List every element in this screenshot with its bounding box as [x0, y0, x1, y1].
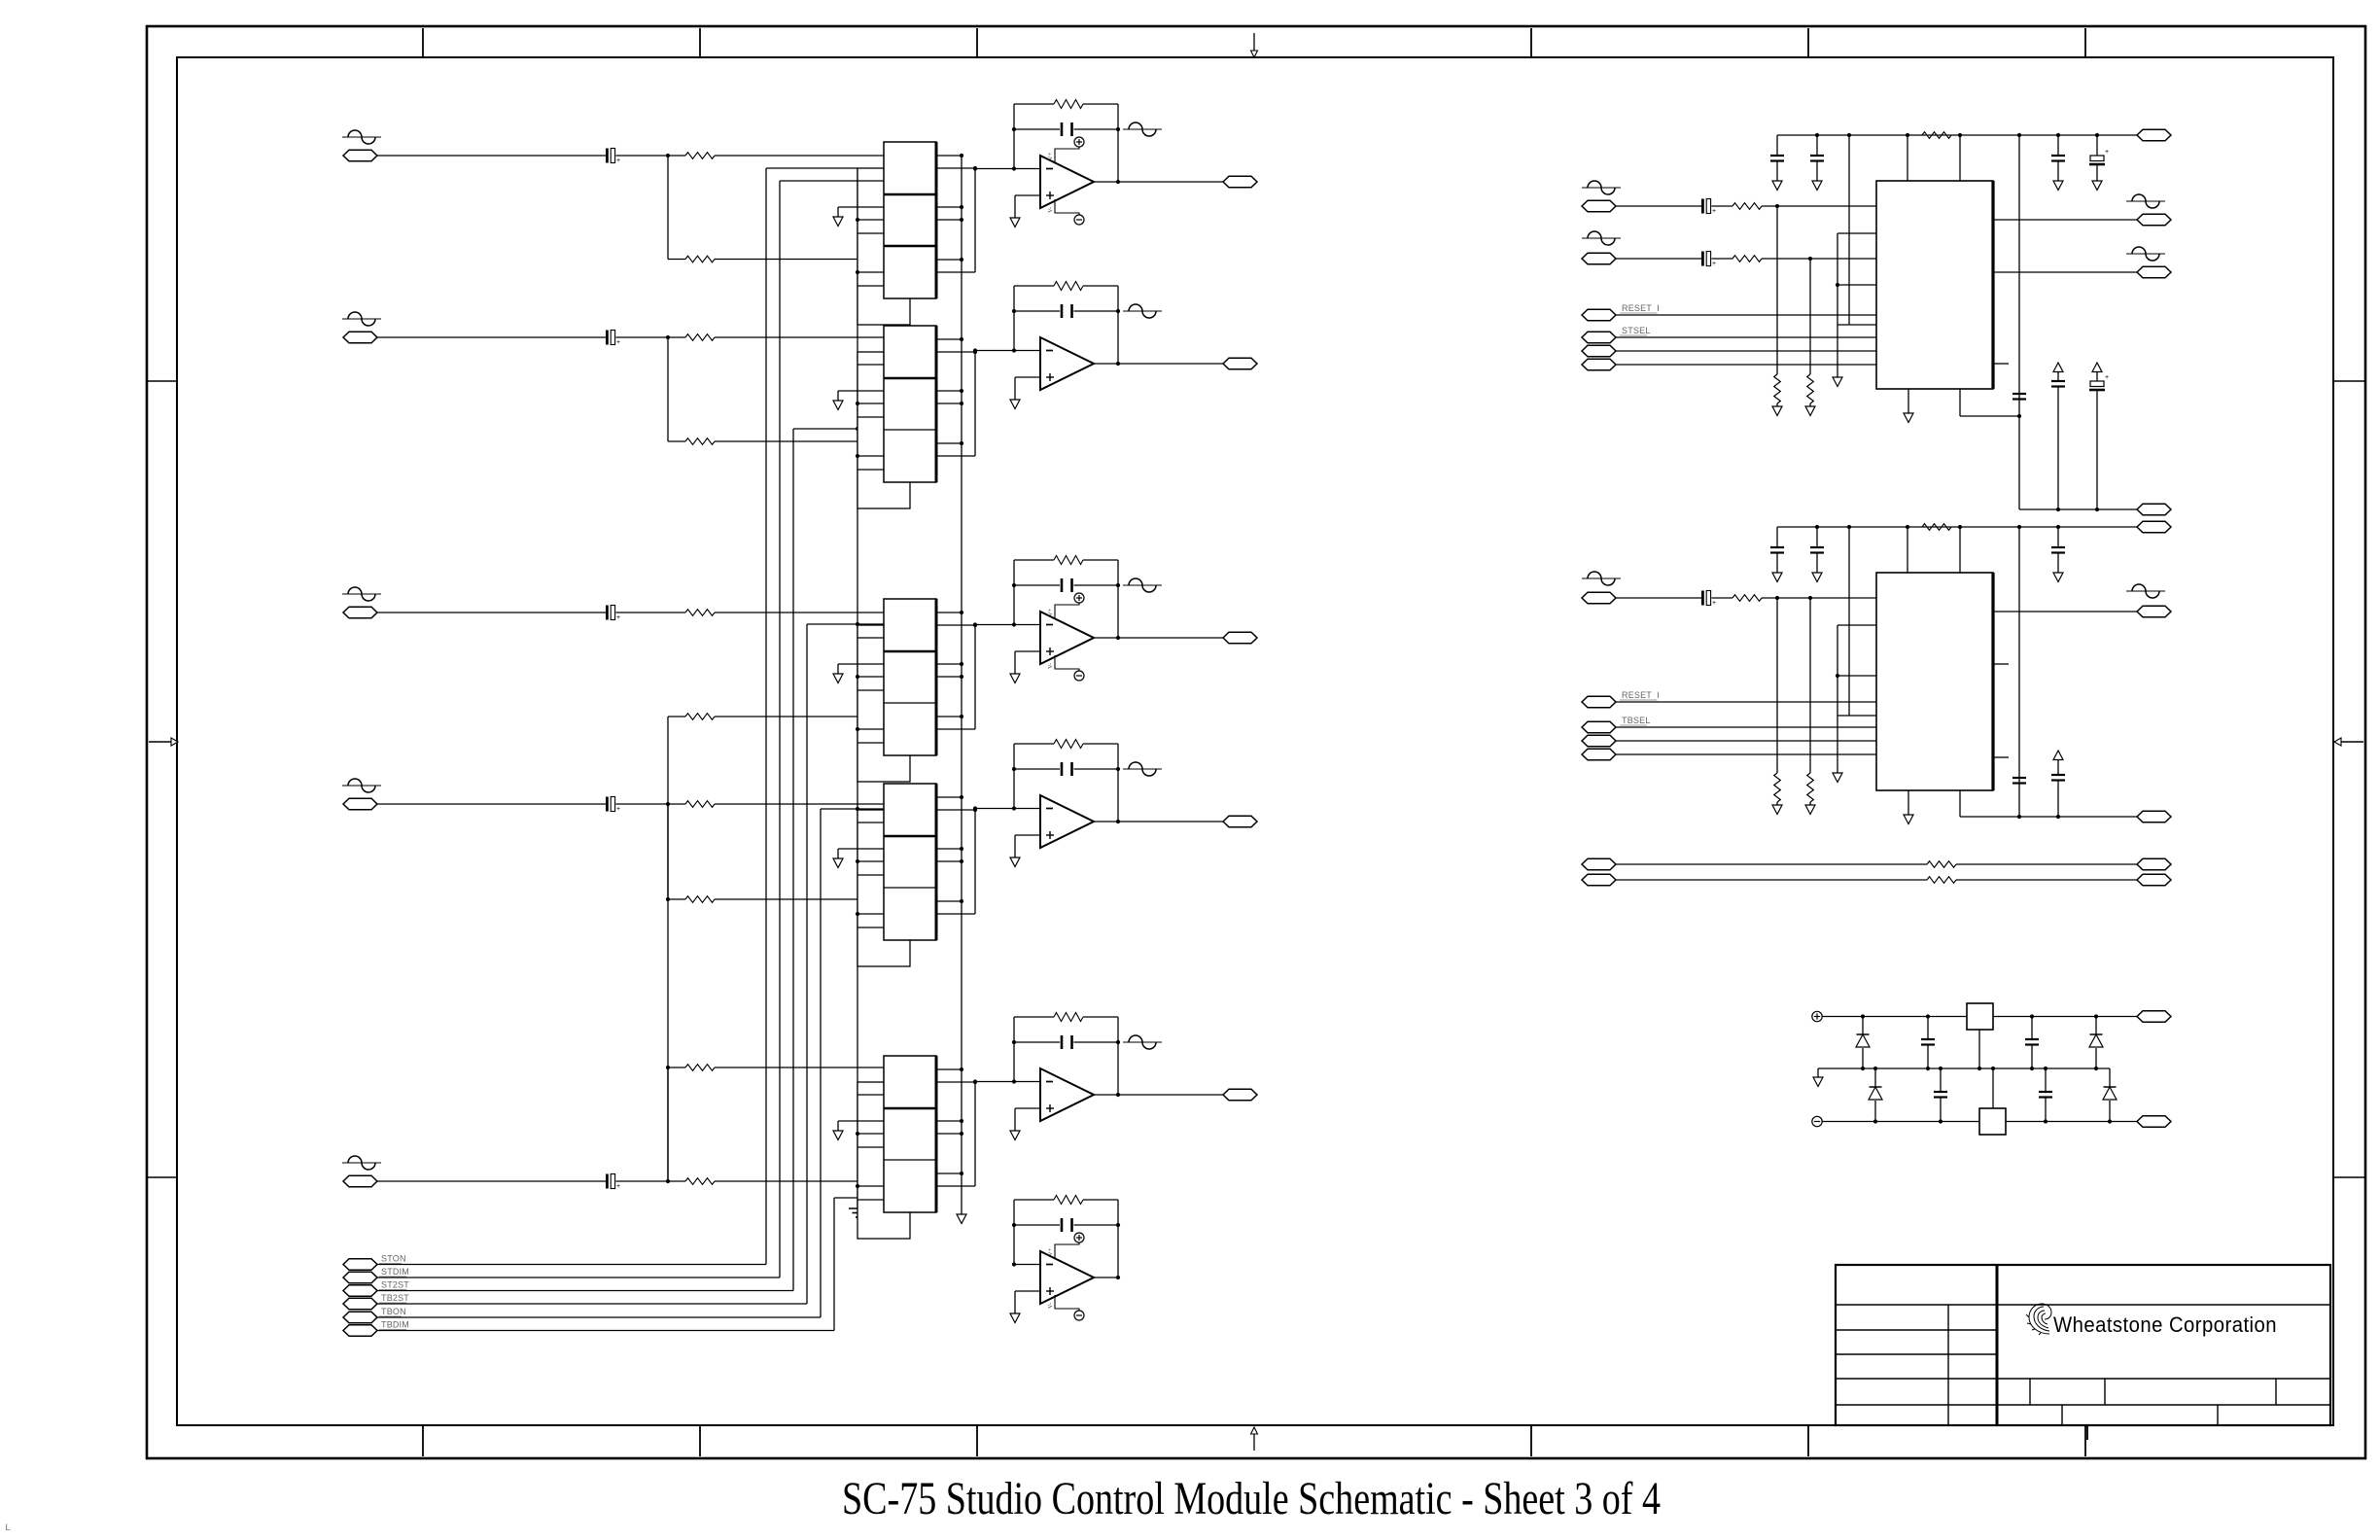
- top border tick 2: [699, 28, 701, 57]
- IC1 input 2 connector: [1582, 253, 1616, 264]
- analog switch U4 (stacked switch block): [833, 784, 977, 966]
- IC1 input 2 wire b: [1712, 258, 1733, 260]
- junction dot op-amp 3 input: [973, 622, 977, 626]
- svg-text:+: +: [616, 157, 620, 164]
- IC2 rail junction dots: [1847, 525, 2021, 529]
- wire STON bus top stub: [766, 167, 857, 169]
- wire input 5 to coupling cap: [377, 1180, 606, 1182]
- svg-text:+: +: [616, 806, 620, 813]
- IC1 bottom ground pin: [1904, 389, 1913, 423]
- op-amp U6: [1010, 100, 1120, 227]
- TB bus connector right 1: [2137, 858, 2171, 870]
- wire TBDIM horizontal: [377, 1330, 834, 1332]
- wire branch 1 to resistor: [668, 259, 685, 261]
- label TBDIM: [379, 1320, 409, 1330]
- TB bus wire 1: [1616, 863, 2137, 865]
- wire STDIM bus top stub: [780, 180, 857, 182]
- IC2 right stub pin b: [1993, 756, 2009, 758]
- control connector TBON: [343, 1312, 377, 1323]
- IC1 rail cap Cb: [1810, 133, 1824, 191]
- power regulator VR1: [1967, 1003, 1993, 1068]
- IC2 bottom ground pin: [1904, 790, 1913, 824]
- switch U1 thick divider: [884, 245, 936, 248]
- svg-text:Wheatѕtone Corporation: Wheatѕtone Corporation: [2053, 1312, 2277, 1337]
- IC1 STSEL wire: [1616, 336, 1876, 338]
- TB bus resistor 2: [1927, 877, 1956, 884]
- IC2 input wire c: [1762, 596, 1876, 600]
- coupling capacitor C1: [606, 149, 620, 165]
- wire resistor 1b to switch: [715, 259, 884, 261]
- wire resistor 1a to switch: [715, 155, 884, 157]
- bottom border tick 6: [2084, 1425, 2086, 1456]
- IC2 output rail: [2019, 815, 2137, 819]
- power diode D1: [1856, 1017, 1870, 1069]
- IC1 sel wire 4: [1616, 364, 1876, 366]
- IC1 top rail output connector: [2137, 129, 2171, 141]
- wire resistor 2a to switch: [715, 336, 884, 338]
- wire ST2ST bus top stub: [793, 427, 884, 431]
- node 1 junction dot: [666, 154, 670, 157]
- wire TB2ST vertical bus: [806, 624, 808, 1304]
- IC2 right vertical cap: [2012, 778, 2026, 784]
- wire node 4 branch down: [667, 804, 669, 899]
- IC2 top rail output connector: [2137, 521, 2171, 533]
- IC1 rail cap Ca: [1770, 135, 1784, 191]
- IC2 rail cap Ca: [1770, 527, 1784, 582]
- svg-text:L: L: [5, 1523, 11, 1534]
- svg-text:+: +: [616, 614, 620, 621]
- output connector J8: [1223, 632, 1257, 644]
- junction dot op-amp 4 input: [973, 806, 977, 810]
- wire input 3 to coupling cap: [377, 612, 606, 613]
- input connector J2: [343, 332, 377, 343]
- IC1 top rail wire: [1777, 134, 2137, 136]
- input connector J4: [343, 798, 377, 810]
- wire resistor 4a to switch: [715, 803, 884, 805]
- coupling capacitor C2: [606, 331, 620, 347]
- bottom border center arrow: [1251, 1427, 1258, 1451]
- wire op-amp 5 output: [1118, 1094, 1223, 1096]
- IC1 input 1 wire b: [1712, 205, 1733, 207]
- IC1 output 1 sine: [2126, 194, 2165, 208]
- resistor R3a: [685, 610, 715, 616]
- wire switch 4 output bus segment: [974, 810, 976, 914]
- op-amp U6 power pins: [1047, 137, 1084, 225]
- svg-text:+: +: [2105, 374, 2109, 381]
- control connector TB2ST: [343, 1298, 377, 1310]
- wire TBON horizontal: [377, 1316, 821, 1318]
- wire input 1 to coupling cap: [377, 155, 606, 157]
- IC1 pulldown resistor 1: [1772, 206, 1782, 416]
- IC2 RESET_I wire: [1616, 701, 1876, 703]
- coupling capacitor C3: [606, 606, 620, 622]
- svg-text:+: +: [616, 1183, 620, 1190]
- wire ST2ST vertical bus: [792, 429, 794, 1291]
- wire TB2ST horizontal: [377, 1303, 807, 1305]
- wire branch 3 to resistor: [668, 716, 685, 717]
- TB bus resistor 1: [1927, 861, 1956, 868]
- label ST2ST: [379, 1280, 409, 1290]
- wire branch 4 to resistor: [668, 898, 685, 900]
- resistor R2a: [685, 334, 715, 341]
- IC2 input cap: [1701, 591, 1716, 608]
- title block left sub divider: [1947, 1305, 1949, 1425]
- input sine symbol channel 4: [342, 779, 381, 792]
- wire to op-amp 2 inverting input: [975, 350, 1014, 352]
- op-amp U7: [1010, 282, 1120, 409]
- IC1 output 2 connector: [2137, 266, 2171, 278]
- IC1 input 2 wire: [1616, 258, 1701, 260]
- bus wire x989 right of switches: [961, 156, 962, 1214]
- power diode D3: [1869, 1068, 1882, 1122]
- op-amp U8 power pins: [1047, 593, 1084, 681]
- svg-text:STSEL: STSEL: [1622, 326, 1651, 335]
- wire resistor 2b to switch: [715, 440, 884, 442]
- svg-text:RESET_I: RESET_I: [1622, 303, 1660, 313]
- label STDIM: [379, 1267, 409, 1277]
- IC2 sel wire 4: [1616, 753, 1876, 755]
- op-amp U9: [1010, 740, 1120, 867]
- IC1 right top cap c2: [2051, 133, 2065, 191]
- wire node 1 branch down: [667, 156, 669, 260]
- bottom border tick 3: [976, 1425, 978, 1456]
- node 5 junction dot: [666, 1179, 670, 1183]
- power plus terminal: [1812, 1011, 1822, 1021]
- wire resistor 3a to switch: [715, 612, 884, 613]
- IC1 output 2 sine: [2126, 247, 2165, 261]
- IC1 bottom output connector: [2137, 504, 2171, 515]
- svg-text:TBON: TBON: [381, 1307, 406, 1316]
- wire TBDIM vertical bus: [833, 1198, 835, 1331]
- bottom border tick 1: [422, 1425, 424, 1456]
- resistor R4a: [685, 801, 715, 808]
- control connector ST2ST: [343, 1285, 377, 1297]
- IC1 long vertical from rail: [1848, 135, 1850, 325]
- wire switch 1 output bus segment: [974, 168, 976, 272]
- input sine symbol channel 1: [342, 130, 381, 144]
- wire branch 2 to resistor: [668, 440, 685, 442]
- resistor R3b: [685, 714, 715, 720]
- IC1 right top cap d2 (polarized): [2089, 133, 2109, 191]
- IC2 sel wire 3: [1616, 740, 1876, 742]
- analog switch U5 (stacked switch block): [833, 1056, 977, 1239]
- IC2 block: [1876, 573, 1993, 790]
- IC1 label RESET_I: [1620, 303, 1660, 313]
- control connector STON: [343, 1259, 377, 1271]
- wire STDIM horizontal: [377, 1277, 780, 1278]
- input connector J3: [343, 607, 377, 618]
- IC1 output 1 wire: [1993, 219, 2137, 221]
- right border center arrow: [2334, 738, 2363, 746]
- resistor R4b: [685, 896, 715, 903]
- IC2 label TBSEL: [1620, 716, 1651, 725]
- IC1 decoupling cap d (polarized): [2089, 363, 2109, 509]
- wire to op-amp 3 inverting input: [975, 624, 1014, 626]
- left border center arrow: [149, 738, 178, 746]
- svg-text:+: +: [1712, 261, 1716, 267]
- TB bus connector left 1: [1582, 858, 1616, 870]
- ground arrow at bottom of x989 bus: [957, 1214, 966, 1224]
- wire STON vertical bus: [765, 168, 767, 1265]
- label TBON: [379, 1307, 406, 1316]
- IC1 input 1 resistor: [1732, 203, 1762, 210]
- power mid rail: [1813, 1067, 2110, 1087]
- wire input 4 to coupling cap: [377, 803, 606, 805]
- wire resistor 4b to switch: [715, 898, 884, 900]
- power cap C1: [1921, 1017, 1935, 1069]
- IC1 bottom rail wire: [1960, 389, 2021, 418]
- IC1 RESET_I wire: [1616, 314, 1876, 316]
- IC1 output 1 connector: [2137, 214, 2171, 226]
- IC1 output rail: [2019, 507, 2137, 511]
- output connector J7: [1223, 358, 1257, 369]
- IC1 top pin wires: [1907, 135, 1960, 181]
- IC1 notch ground: [1833, 325, 1842, 387]
- wire TBON vertical bus: [820, 809, 822, 1317]
- IC2 input wire b: [1712, 597, 1733, 599]
- wire resistor 5b to switch: [715, 1067, 884, 1068]
- wire cap 1 to node: [616, 155, 686, 157]
- IC2 pulldown resistor 1: [1772, 598, 1782, 815]
- power top rail connector: [2137, 1011, 2171, 1023]
- wire STDIM vertical bus: [779, 181, 781, 1277]
- IC1 rail junction dots: [1847, 133, 2021, 137]
- title block outer box: [1836, 1265, 2330, 1425]
- svg-text:+: +: [616, 339, 620, 346]
- IC2 input wire: [1616, 597, 1701, 599]
- wire node 2 branch down: [667, 337, 669, 441]
- IC1 label STSEL: [1620, 326, 1651, 335]
- power minus terminal: [1812, 1116, 1822, 1126]
- svg-text:SC-75 Studio Control Module Sc: SC-75 Studio Control Module Schematic - …: [842, 1473, 1661, 1524]
- IC2 right vertical wire: [2018, 527, 2020, 817]
- svg-text:STDIM: STDIM: [381, 1267, 409, 1277]
- wire TBDIM stub to switch 5: [834, 1197, 884, 1199]
- IC1 block: [1876, 181, 1993, 389]
- IC1 sel connector 4: [1582, 359, 1616, 370]
- control connector TBDIM: [343, 1325, 377, 1337]
- IC2 label RESET_I: [1620, 690, 1660, 700]
- power bottom rail connector: [2137, 1116, 2171, 1128]
- IC2 notch ground: [1833, 716, 1842, 783]
- resistor R5a: [685, 1178, 715, 1185]
- resistor R5b: [685, 1065, 715, 1071]
- junction dot op-amp 1 input: [973, 166, 977, 170]
- junction dots on sum bus: [666, 897, 670, 1069]
- coupling capacitor C5: [606, 1174, 620, 1191]
- feedback sine symbol 4: [1123, 762, 1162, 776]
- bottom border tick 5: [1807, 1425, 1809, 1456]
- IC2 right top cap: [2051, 525, 2065, 582]
- svg-text:TBDIM: TBDIM: [381, 1320, 409, 1330]
- IC1 sel wire 3: [1616, 350, 1876, 352]
- IC1 input 1 sine: [1582, 181, 1621, 194]
- wire cap 2 to node: [616, 336, 686, 338]
- IC2 top pin wires: [1907, 527, 1960, 573]
- wire cap 4 to node: [616, 803, 686, 805]
- input sine symbol channel 5: [342, 1156, 381, 1170]
- IC1 left pin notch wires: [1836, 233, 1876, 325]
- wire switch 2 output bus segment: [974, 352, 976, 456]
- analog switch U2 (stacked switch block): [833, 326, 977, 508]
- wire branch 5 to resistor: [668, 1067, 685, 1068]
- IC1 input 1 wire c: [1762, 204, 1876, 208]
- coupling capacitor C4: [606, 797, 620, 814]
- IC2 TBSEL wire: [1616, 726, 1876, 728]
- node 2 junction dot: [666, 335, 670, 339]
- IC1 right vertical wire: [2018, 135, 2020, 509]
- wheatstone logo swirl: [2026, 1304, 2051, 1335]
- TB bus connector left 2: [1582, 874, 1616, 886]
- right border tick 2: [2333, 1176, 2365, 1178]
- IC1 input 1 cap: [1701, 199, 1716, 216]
- IC2 TBSEL connector: [1582, 721, 1616, 733]
- title block right rows: [1997, 1305, 2330, 1405]
- wire ST2ST horizontal: [377, 1290, 793, 1292]
- analog switch U3 (stacked switch block): [833, 599, 977, 782]
- left border tick 2: [147, 1176, 177, 1178]
- IC1 sel connector 3: [1582, 345, 1616, 357]
- wire cap 3 to node: [616, 612, 686, 613]
- TB bus connector right 2: [2137, 874, 2171, 886]
- IC2 RESET_I connector: [1582, 696, 1616, 708]
- svg-text:ST2ST: ST2ST: [381, 1280, 409, 1290]
- IC1 input 2 resistor: [1732, 256, 1762, 262]
- top border center arrow: [1251, 33, 1258, 57]
- wire switch 3 output bus segment: [974, 625, 976, 729]
- IC2 top rail wire: [1777, 526, 2137, 528]
- op-amp U11: [1010, 1196, 1120, 1323]
- svg-text:TB2ST: TB2ST: [381, 1293, 409, 1303]
- IC2 output connector: [2137, 606, 2171, 617]
- wire input 2 to coupling cap: [377, 336, 606, 338]
- svg-text:+: +: [1712, 600, 1716, 607]
- IC1 STSEL connector: [1582, 332, 1616, 343]
- wire resistor 5a to switch: [715, 1180, 884, 1182]
- IC1 input 2 wire c: [1762, 257, 1876, 261]
- input sine symbol channel 2: [342, 312, 381, 326]
- power cap C4: [2039, 1068, 2052, 1122]
- IC1 rail resistor Rr1: [1922, 132, 1951, 139]
- top border tick 3: [976, 28, 978, 57]
- wire to op-amp 5 inverting input: [975, 1081, 1014, 1083]
- output connector J10: [1223, 1089, 1257, 1101]
- IC1 input 1 wire: [1616, 205, 1701, 207]
- feedback sine symbol 3: [1123, 578, 1162, 592]
- IC1 pulldown resistor 2: [1805, 259, 1815, 416]
- IC2 decoupling cap c: [2051, 751, 2065, 817]
- feedback sine symbol 1: [1123, 122, 1162, 136]
- resistor R1b: [685, 256, 715, 262]
- earth ground symbol: [849, 1208, 866, 1217]
- bottom border tick 2: [699, 1425, 701, 1456]
- IC2 long vertical from rail: [1848, 527, 1850, 716]
- wire op-amp 3 output: [1118, 637, 1223, 639]
- wire switch 5 output bus segment: [974, 1082, 976, 1186]
- feedback sine symbol 2: [1123, 304, 1162, 318]
- power top rail: [1822, 1014, 2137, 1018]
- IC1 RESET_I connector: [1582, 309, 1616, 321]
- top border tick 5: [1807, 28, 1809, 57]
- power cap C3: [1934, 1068, 1947, 1122]
- IC1 output 2 wire: [1993, 271, 2137, 273]
- power cap C2: [2025, 1017, 2039, 1069]
- wire STON horizontal: [377, 1264, 766, 1266]
- bus wire x686 sum node: [667, 717, 669, 1181]
- IC2 output wire: [1993, 611, 2137, 612]
- control connector STDIM: [343, 1272, 377, 1283]
- title block left rows: [1836, 1305, 1997, 1405]
- top border tick 6: [2084, 28, 2086, 57]
- IC2 left pin notch wires: [1836, 625, 1876, 716]
- wire TBON bus top stub: [821, 807, 884, 811]
- node 4 junction dot: [666, 802, 670, 806]
- title block bottom tick: [2086, 1425, 2088, 1440]
- wire TB2ST bus top stub: [807, 622, 884, 626]
- IC1 input 2 cap: [1701, 252, 1716, 268]
- wire resistor 3b to switch: [715, 716, 884, 717]
- input connector J5: [343, 1175, 377, 1187]
- output connector J6: [1223, 176, 1257, 188]
- IC2 input resistor: [1732, 595, 1762, 602]
- IC2 bottom rail wire: [1960, 790, 2021, 819]
- analog switch U1 (stacked switch block): [833, 142, 977, 325]
- IC1 right stub pin: [1993, 363, 2009, 365]
- wire cap 5 to node: [616, 1180, 686, 1182]
- TB bus wire 2: [1616, 879, 2137, 881]
- IC1 input 2 sine: [1582, 231, 1621, 245]
- wire op-amp 1 output: [1118, 181, 1223, 183]
- power diode D2: [2089, 1017, 2103, 1069]
- op-amp U10: [1010, 1013, 1120, 1140]
- top border tick 1: [422, 28, 424, 57]
- label TB2ST: [379, 1293, 409, 1303]
- IC2 output sine: [2126, 584, 2165, 598]
- junction dot op-amp 2 input: [973, 348, 977, 352]
- svg-text:RESET_I: RESET_I: [1622, 690, 1660, 700]
- IC2 sel connector 4: [1582, 749, 1616, 760]
- bottom border tick 4: [1530, 1425, 1532, 1456]
- wire to op-amp 1 inverting input: [975, 168, 1014, 170]
- feedback sine symbol 5: [1123, 1035, 1162, 1049]
- junction dot op-amp 5 input: [973, 1079, 977, 1083]
- IC2 rail cap Cb: [1810, 525, 1824, 582]
- IC2 right stub pin a: [1993, 663, 2009, 665]
- IC2 sel connector 3: [1582, 735, 1616, 747]
- IC1 right vertical cap: [2012, 394, 2026, 400]
- title block right cells: [2030, 1379, 2276, 1425]
- IC2 input sine: [1582, 572, 1621, 585]
- left border tick 1: [147, 380, 177, 382]
- op-amp U11 power pins: [1047, 1233, 1084, 1320]
- IC2 input connector: [1582, 592, 1616, 604]
- power regulator VR2: [1979, 1068, 2006, 1135]
- input connector J1: [343, 150, 377, 161]
- svg-text:TBSEL: TBSEL: [1622, 716, 1651, 725]
- svg-text:+: +: [2105, 149, 2109, 156]
- svg-text:STON: STON: [381, 1254, 406, 1264]
- bus wire x882 left of switches: [857, 168, 858, 1208]
- IC1 decoupling cap c: [2051, 363, 2065, 509]
- resistor R1a: [685, 153, 715, 159]
- title block main divider: [1996, 1265, 1999, 1425]
- wire node 5 branch up: [667, 1067, 669, 1181]
- svg-text:+: +: [1712, 208, 1716, 215]
- input sine symbol channel 3: [342, 587, 381, 601]
- power bottom rail: [1822, 1119, 2137, 1123]
- IC1 input 1 connector: [1582, 200, 1616, 212]
- output connector J9: [1223, 816, 1257, 827]
